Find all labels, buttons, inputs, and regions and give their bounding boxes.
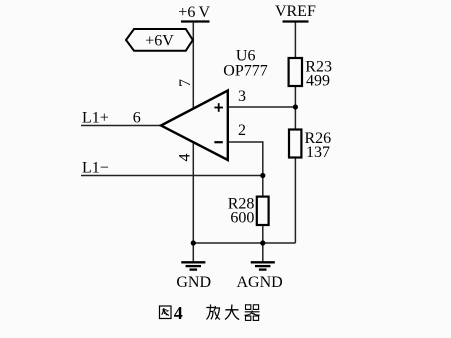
- svg-text:3: 3: [238, 88, 246, 105]
- svg-text:VREF: VREF: [275, 3, 316, 20]
- wire: L1+ input: [81, 125, 162, 127]
- junction dot at pin3 / R23 / R26 node: [293, 104, 298, 109]
- wire: pin 3 horizontal: [228, 106, 295, 108]
- svg-text:GND: GND: [176, 274, 211, 291]
- svg-text:L1−: L1−: [82, 160, 109, 177]
- wire: L1- input: [81, 175, 263, 177]
- svg-text:2: 2: [238, 122, 246, 139]
- wire: AGND stem: [262, 243, 264, 262]
- svg-text:AGND: AGND: [236, 274, 282, 291]
- svg-text:4: 4: [177, 154, 194, 162]
- power symbol +6 V: bar: [181, 20, 210, 22]
- wire: pin7/pin4 vertical rail through op-amp: [192, 23, 194, 243]
- op-amp - input marker: [214, 141, 222, 143]
- caption: hanzi TU (figure): [160, 306, 172, 319]
- junction dot at AGND on bottom rail: [260, 240, 265, 245]
- caption: hanzi FANG: [206, 305, 220, 320]
- ground symbol AGND: [251, 262, 275, 269]
- caption: hanzi DA: [225, 305, 239, 320]
- wire: pin 2 horizontal: [228, 141, 264, 143]
- net label hexagon +6V: [126, 29, 193, 51]
- resistor R26 body: [289, 130, 301, 158]
- svg-text:6: 6: [133, 109, 141, 126]
- wire: GND stem: [192, 243, 194, 262]
- svg-text:+6V: +6V: [145, 33, 174, 50]
- svg-text:600: 600: [230, 210, 254, 227]
- junction dot at pin2 / L1- / R28 node: [260, 173, 265, 178]
- caption: hanzi QI: [245, 305, 260, 321]
- wire: +6V right net vertical (VREF to bottom rail): [294, 22, 296, 243]
- svg-text:7: 7: [177, 79, 194, 87]
- ground symbol GND: [181, 262, 205, 269]
- power symbol VREF: bar: [283, 20, 309, 22]
- op-amp U6 triangle: [161, 91, 228, 161]
- wire: pin 2 vertical down to R28 and bottom rail: [262, 141, 264, 243]
- svg-text:+6 V: +6 V: [178, 4, 210, 21]
- svg-text:499: 499: [306, 72, 330, 89]
- resistor R23 body: [289, 58, 302, 86]
- svg-text:4: 4: [174, 303, 183, 323]
- wire: bottom ground rail: [193, 242, 295, 244]
- svg-text:L1+: L1+: [82, 110, 109, 127]
- svg-text:137: 137: [306, 144, 330, 161]
- resistor R28 body: [257, 197, 269, 225]
- svg-text:OP777: OP777: [223, 63, 267, 80]
- op-amp + input marker: [214, 103, 223, 112]
- junction dot at GND on bottom rail: [191, 240, 196, 245]
